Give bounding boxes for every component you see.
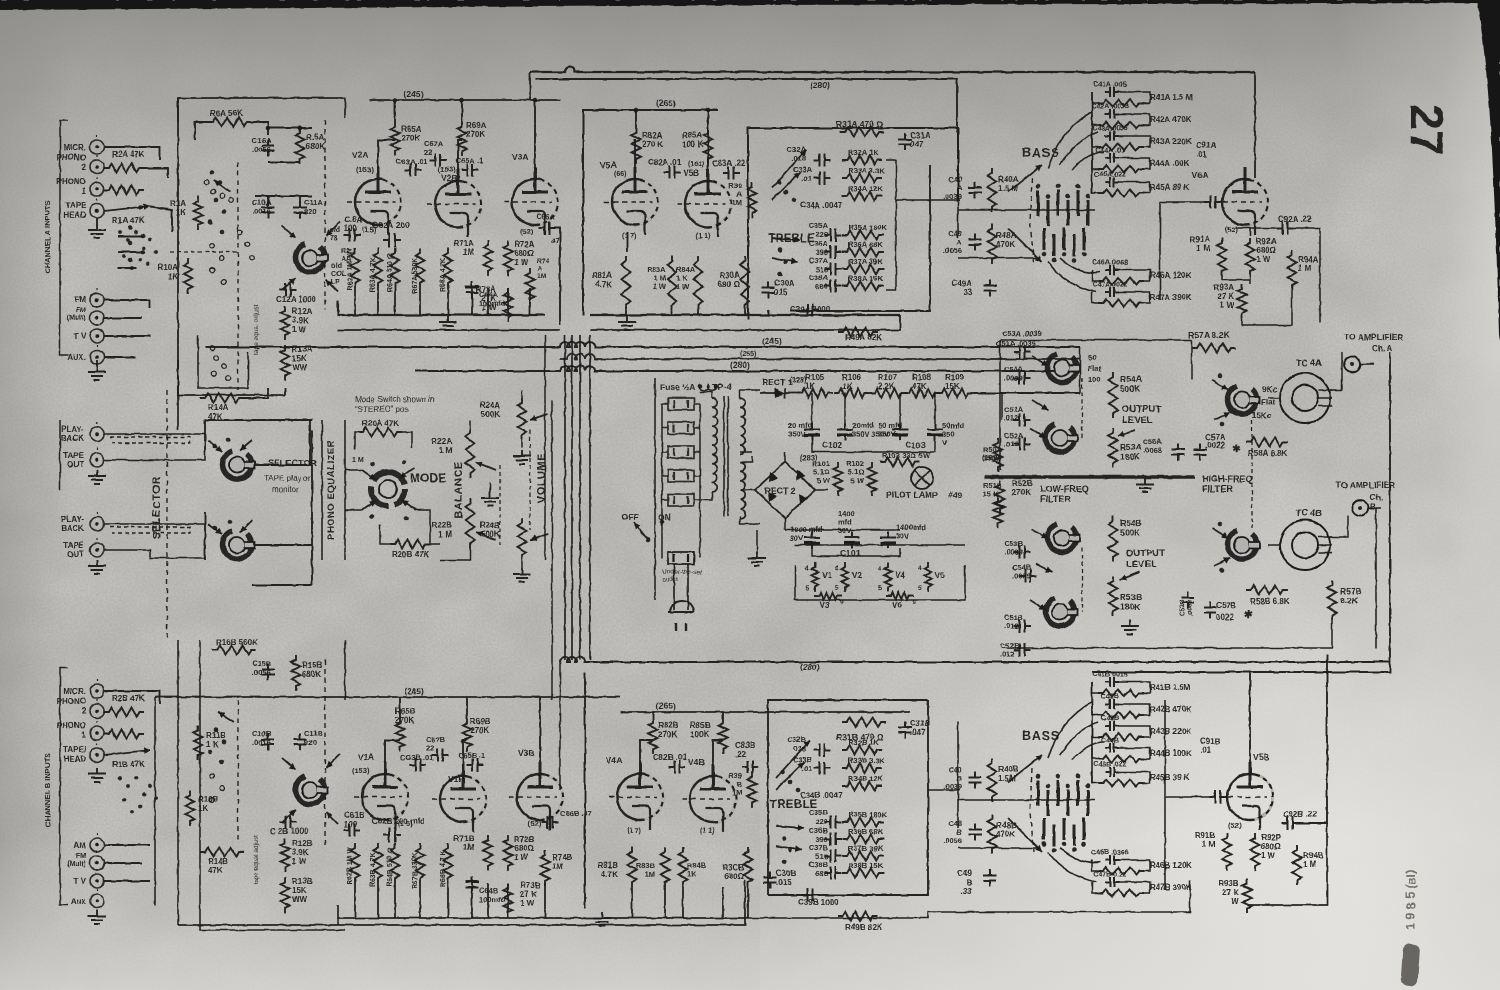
mid rail 280	[415, 366, 1080, 371]
svg-text:33: 33	[963, 288, 972, 297]
wire sel block A bottom	[284, 388, 286, 395]
wire xfmr leads	[700, 392, 712, 398]
node tape A	[139, 205, 144, 210]
bottom right smudge	[1400, 943, 1420, 986]
svg-text:4: 4	[835, 565, 839, 572]
svg-text:1 W: 1 W	[482, 303, 497, 312]
triode V5A	[612, 179, 658, 225]
resistor R107 2.2K	[870, 389, 906, 398]
output wiper B	[1120, 572, 1140, 580]
svg-text:A: A	[537, 266, 542, 273]
resistor R85A 100K	[704, 128, 713, 164]
svg-text:C83A .22: C83A .22	[712, 159, 746, 168]
diode rect1	[775, 388, 785, 398]
jack playback B	[90, 517, 104, 531]
hf arrows A	[1212, 380, 1228, 390]
heater resistor V5	[925, 562, 932, 592]
svg-text:4.7K: 4.7K	[601, 870, 618, 879]
resistor R2B	[104, 708, 144, 717]
svg-text:(245): (245)	[404, 89, 424, 99]
resistor R81A 4.7K	[622, 256, 631, 310]
svg-text:.0016: .0016	[252, 207, 271, 216]
resistor R74A 1M	[526, 268, 535, 304]
capacitor C32B	[814, 744, 831, 757]
switch fan treble A top	[772, 150, 806, 188]
svg-text:OFF: OFF	[622, 512, 639, 522]
svg-text:R33B 3.3K: R33B 3.3K	[848, 756, 886, 765]
svg-text:(52): (52)	[1225, 225, 1239, 234]
bass A feed wires	[930, 199, 960, 201]
svg-text:22: 22	[426, 744, 434, 753]
capacitor C66B	[542, 816, 559, 829]
svg-text:T V: T V	[74, 332, 87, 341]
svg-text:R32B 1K: R32B 1K	[848, 738, 879, 747]
svg-text:V2: V2	[852, 571, 862, 580]
dashed wafer line B2	[324, 660, 326, 845]
mid rail 255	[560, 354, 1080, 359]
capacitor C6A 100	[344, 229, 361, 242]
capacitor C30A 015	[762, 282, 775, 299]
svg-text:✱: ✱	[1244, 610, 1253, 621]
power cord	[673, 564, 675, 610]
heavy divider line	[985, 475, 1195, 479]
bottom bus B main	[178, 880, 745, 925]
svg-text:C42B: C42B	[1101, 694, 1119, 701]
wire v5a plate	[635, 140, 636, 168]
svg-text:V4B: V4B	[688, 757, 705, 767]
capacitor C49A 33	[984, 280, 997, 297]
resistor R68A 4.7K	[444, 248, 453, 288]
outer left vertical bottom	[177, 640, 179, 925]
svg-text:C34A .0047: C34A .0047	[800, 201, 843, 210]
svg-text:500K: 500K	[1120, 528, 1141, 538]
svg-text:15Kc: 15Kc	[1252, 411, 1272, 420]
heater resistor V6	[886, 593, 914, 600]
svg-text:R31A 470 Ω: R31A 470 Ω	[836, 119, 883, 129]
capacitor C54B	[1020, 570, 1037, 583]
svg-text:C83B: C83B	[735, 741, 756, 750]
svg-text:C34B .0047: C34B .0047	[800, 791, 843, 800]
wire c66a down	[553, 228, 560, 325]
resistor R68B 4.7K	[444, 843, 453, 883]
ground inputs A low	[88, 366, 106, 380]
capacitor C49B 33	[984, 870, 997, 887]
resistor R72B 680	[504, 835, 513, 871]
svg-text:R71A: R71A	[454, 239, 475, 248]
ground tube row B	[593, 912, 611, 926]
capacitor C51A .012	[1014, 414, 1031, 427]
bass switch arrow A dn	[1008, 228, 1042, 262]
svg-text:C38A: C38A	[809, 273, 829, 282]
top rail 245 B	[155, 696, 620, 698]
cathode bus stubs B	[354, 883, 356, 918]
transformer core	[724, 396, 728, 516]
svg-text:(153): (153)	[352, 766, 370, 775]
wire r20a loop	[355, 432, 358, 450]
lower contact box A	[198, 335, 248, 388]
bass curved links B	[1048, 702, 1104, 760]
resistor R65A 270K	[391, 122, 400, 156]
svg-text:R10B: R10B	[198, 795, 219, 804]
svg-text:.22: .22	[735, 750, 747, 759]
wire gnd low stub	[96, 360, 98, 366]
svg-text:(245): (245)	[762, 336, 782, 346]
resistor R108 47K	[904, 389, 940, 398]
svg-text:C66B .47: C66B .47	[560, 809, 592, 818]
heater resistor V2	[842, 562, 849, 592]
selector box A	[178, 98, 345, 122]
svg-text:LEVEL: LEVEL	[1126, 559, 1157, 570]
svg-text:270K: 270K	[658, 730, 677, 739]
svg-text:680 Ω: 680 Ω	[718, 280, 741, 289]
wire tv A	[104, 335, 150, 337]
svg-text:500K: 500K	[481, 410, 500, 419]
resistor R24A 500K	[518, 398, 527, 440]
contact open circles A1	[205, 180, 210, 185]
bottom rail B	[154, 697, 156, 905]
contact open circles A2	[210, 346, 215, 351]
dashed tape loop A	[110, 437, 190, 443]
capacitor C63A .01	[405, 164, 422, 177]
ground input B	[88, 768, 106, 782]
svg-text:27: 27	[1401, 104, 1453, 155]
svg-text:R10A: R10A	[158, 263, 179, 272]
svg-text:R69B: R69B	[470, 717, 491, 726]
resistor R58A 6.8K	[1246, 438, 1288, 447]
svg-text:(255): (255)	[740, 351, 756, 358]
svg-text:R.5A: R.5A	[306, 133, 324, 142]
vertical bus 1	[564, 335, 566, 660]
svg-text:AM: AM	[74, 841, 87, 850]
svg-text:(1 1): (1 1)	[700, 828, 714, 835]
svg-text:1 W: 1 W	[292, 857, 307, 866]
svg-text:220: 220	[815, 230, 828, 239]
svg-text:R108: R108	[912, 373, 932, 382]
svg-text:Flat: Flat	[1261, 398, 1276, 407]
dashed volume link	[529, 430, 531, 530]
svg-text:C32A: C32A	[787, 145, 807, 154]
dashed hf link	[1251, 420, 1253, 528]
svg-text:R103 33Ω 5W: R103 33Ω 5W	[882, 451, 931, 460]
svg-text:.0068: .0068	[1143, 446, 1162, 455]
wire r5a rail	[268, 127, 312, 129]
svg-text:47: 47	[551, 236, 559, 245]
bass switch arc A	[1030, 178, 1034, 262]
svg-text:Ch. A: Ch. A	[1372, 344, 1393, 353]
svg-text:MICR.: MICR.	[63, 143, 86, 152]
svg-text:Mode Switch shown in: Mode Switch shown in	[355, 395, 435, 404]
capacitor C46B .0366 / resistor R46B 120K low row B	[1105, 855, 1119, 865]
svg-text:R14A: R14A	[208, 403, 229, 412]
svg-text:1M: 1M	[732, 788, 742, 797]
svg-text:R36A 68K: R36A 68K	[848, 240, 883, 249]
wire balance wiper gnd	[489, 482, 491, 492]
interlock contacts column	[668, 398, 694, 410]
svg-text:C43A.0056: C43A.0056	[1092, 126, 1128, 133]
wire am B	[104, 844, 150, 846]
node rail a1	[393, 98, 398, 103]
svg-text:R15B: R15B	[302, 661, 323, 670]
svg-text:R43A 220K: R43A 220K	[1150, 137, 1192, 146]
svg-text:R45B 39 K: R45B 39 K	[1150, 773, 1190, 782]
triode V6A	[1222, 179, 1268, 225]
wire c91b in	[1165, 796, 1210, 798]
switch dots B	[214, 728, 219, 733]
svg-text:V1: V1	[822, 571, 832, 580]
jack AM B	[90, 838, 104, 852]
resistor R83A 1M	[668, 256, 677, 310]
svg-text:C82B .01: C82B .01	[653, 753, 687, 762]
svg-text:R85A: R85A	[682, 131, 703, 140]
svg-text:RECT 2: RECT 2	[764, 486, 796, 496]
svg-text:PHONO: PHONO	[57, 177, 86, 186]
svg-text:R53B: R53B	[1120, 592, 1142, 602]
resistor R50A 150K	[994, 438, 1003, 472]
resistor R36A 68K	[842, 248, 884, 257]
terminal to amplifier A	[1344, 356, 1360, 372]
svg-text:1K: 1K	[805, 382, 815, 391]
treble box A	[748, 128, 958, 320]
svg-text:OUTPUT: OUTPUT	[1122, 404, 1161, 415]
svg-text:4: 4	[918, 565, 922, 572]
dashed lf link B	[1081, 548, 1083, 612]
jack TV B	[90, 874, 104, 888]
capacitor C2B 1000	[280, 816, 297, 829]
capacitor C82B .01	[669, 761, 686, 774]
svg-text:R36B 68K: R36B 68K	[848, 827, 884, 836]
jack AUX A	[90, 350, 104, 364]
svg-text:R34B 12K: R34B 12K	[848, 774, 884, 783]
ground playback A	[88, 470, 106, 484]
svg-text:C65A .1: C65A .1	[456, 156, 483, 165]
svg-text:1 W: 1 W	[514, 258, 529, 267]
svg-text:R94B: R94B	[1303, 851, 1324, 860]
svg-text:TO AMPLIFIER: TO AMPLIFIER	[1336, 480, 1396, 490]
capacitor C35B	[825, 816, 842, 829]
heater resistor V3	[814, 593, 842, 600]
bass A lower rail	[958, 257, 1040, 259]
svg-text:.012: .012	[1004, 440, 1019, 449]
resistor R3A	[104, 186, 144, 195]
svg-text:R58B 6.8K: R58B 6.8K	[1250, 597, 1290, 606]
svg-text:V1B: V1B	[448, 774, 465, 784]
svg-text:Fuse ½A: Fuse ½A	[660, 382, 695, 392]
svg-text:1 M: 1 M	[1298, 264, 1312, 273]
svg-text:OUT: OUT	[67, 460, 84, 469]
svg-text:2: 2	[82, 163, 87, 172]
svg-text:PLAY-: PLAY-	[61, 425, 84, 434]
wire selector B out	[255, 544, 312, 546]
capacitor C35A	[825, 229, 842, 242]
node r5a top	[298, 126, 303, 131]
power switch lever	[634, 522, 648, 540]
capacitor C32A	[814, 154, 831, 167]
svg-text:5 W: 5 W	[817, 476, 831, 485]
resistor R69A 270K	[458, 122, 467, 156]
svg-text:PHONO: PHONO	[57, 697, 86, 706]
svg-text:R64A 510 Ω: R64A 510 Ω	[387, 253, 394, 292]
wire mode links	[345, 469, 362, 471]
svg-text:2.2K: 2.2K	[878, 382, 895, 391]
resistor R35B 180K	[842, 818, 884, 827]
jack FM A	[90, 293, 104, 307]
wire second top rail	[535, 79, 957, 132]
svg-text:V4A: V4A	[606, 755, 623, 765]
resistor R106 1K	[834, 389, 870, 398]
resistor R65B 270K	[396, 718, 405, 752]
bass A mid rail	[958, 209, 1095, 211]
wire c101 bus	[785, 529, 900, 531]
wire v2b plate rail	[458, 140, 462, 170]
svg-text:27 K: 27 K	[1217, 292, 1234, 301]
svg-text:2: 2	[82, 707, 87, 716]
resistor R91A 1M	[1218, 238, 1227, 276]
svg-text:1M: 1M	[645, 870, 655, 879]
wire v3a plate	[534, 100, 536, 168]
resistor R10A 1K	[184, 258, 193, 294]
svg-text:470K: 470K	[996, 830, 1015, 839]
svg-text:HIGH-FREQ: HIGH-FREQ	[1202, 474, 1253, 484]
capacitor C53B	[1014, 546, 1031, 559]
svg-text:(1 1): (1 1)	[696, 233, 710, 240]
B+ 280 rail top	[530, 67, 1255, 72]
svg-text:PLAY-: PLAY-	[61, 515, 84, 524]
selector arrows B	[208, 524, 222, 534]
svg-text:.015: .015	[776, 878, 792, 887]
resistor R34A 12K	[842, 192, 882, 201]
svg-text:C91A: C91A	[1196, 141, 1217, 150]
rectifier bridge RECT 2	[755, 462, 815, 518]
svg-text:R109: R109	[945, 373, 965, 382]
svg-text:R40B: R40B	[998, 765, 1019, 774]
svg-text:C35A: C35A	[809, 221, 829, 230]
svg-text:270K: 270K	[1012, 488, 1031, 497]
resistor R1A 1K	[194, 196, 203, 230]
resistor R84A 1K	[694, 256, 703, 310]
svg-text:R68B 4.7 K: R68B 4.7 K	[440, 850, 447, 887]
svg-text:T V: T V	[74, 877, 87, 886]
svg-text:TAPE play or: TAPE play or	[264, 474, 311, 483]
bass curved links A	[1048, 112, 1104, 170]
switch arrows wafer A	[282, 226, 296, 238]
svg-text:C46B .0366: C46B .0366	[1091, 850, 1128, 857]
svg-text:COL: COL	[331, 271, 347, 278]
capacitor C41A / resistor R41A ladder row	[1105, 87, 1119, 97]
power box outline	[654, 378, 656, 600]
svg-text:R24B: R24B	[480, 521, 501, 530]
svg-text:1 M: 1 M	[439, 530, 453, 539]
svg-text:3.9K: 3.9K	[292, 848, 309, 857]
jack TV A	[90, 329, 104, 343]
svg-text:outlet: outlet	[662, 577, 678, 584]
mode arrows	[362, 470, 376, 480]
svg-text:C15B: C15B	[252, 659, 272, 668]
jack tape out A	[90, 453, 104, 467]
svg-text:TAPE: TAPE	[63, 451, 84, 460]
wire 280 rail drop right	[1254, 72, 1256, 178]
svg-text:C46A.0068: C46A.0068	[1092, 260, 1128, 267]
wire hf A net	[1191, 340, 1193, 380]
svg-text:(163): (163)	[356, 165, 374, 174]
capacitor C65A .1	[462, 164, 479, 177]
svg-text:C62A 200: C62A 200	[372, 220, 410, 230]
wire input gnd stub	[96, 218, 98, 224]
highfreq knob A	[1228, 386, 1257, 414]
capacitor C33B	[814, 762, 831, 775]
svg-text:1 W: 1 W	[292, 325, 307, 334]
triode V4A	[617, 774, 663, 820]
svg-text:C39B 1000: C39B 1000	[798, 898, 839, 907]
svg-text:100: 100	[344, 224, 358, 233]
selector feed dots A	[128, 226, 133, 231]
capacitor C10A	[262, 202, 275, 219]
wire r24a	[521, 440, 523, 448]
svg-text:(1 7): (1 7)	[622, 233, 636, 240]
jack MICR A	[90, 140, 104, 154]
wire v5b top rail	[1250, 662, 1390, 672]
svg-text:C10B: C10B	[252, 729, 272, 738]
wire c10 c11 top	[267, 196, 269, 203]
wire v3b plate	[539, 697, 541, 763]
svg-text:Ch.: Ch.	[1370, 493, 1383, 502]
resistor R40A 1.5M	[988, 168, 997, 212]
wire v5a cathode	[626, 232, 628, 252]
svg-text:8.2K: 8.2K	[1340, 596, 1359, 606]
svg-text:V3: V3	[820, 601, 830, 610]
resistor R12A	[281, 306, 290, 340]
svg-text:(280): (280)	[730, 360, 750, 370]
wire c92a to right	[1293, 228, 1320, 322]
resistor R73B 27K	[504, 883, 513, 917]
svg-text:V5B: V5B	[1253, 752, 1270, 762]
svg-text:R40A: R40A	[998, 175, 1019, 184]
ground inputs B low	[88, 910, 106, 924]
svg-text:5 W: 5 W	[851, 476, 865, 485]
svg-text:FM: FM	[76, 307, 86, 314]
svg-text:1 M: 1 M	[1197, 244, 1211, 253]
svg-text:.0056: .0056	[943, 836, 962, 845]
resistor R46B 120K label wire	[1148, 861, 1155, 863]
svg-text:TAPE/: TAPE/	[63, 745, 87, 754]
svg-text:B: B	[1370, 502, 1376, 511]
svg-text:R20B 47K: R20B 47K	[392, 550, 430, 559]
resistor R53B 180K	[1109, 576, 1118, 616]
svg-text:.012: .012	[1000, 650, 1015, 659]
heater resistor V1	[812, 562, 819, 592]
wire sel feed A	[118, 235, 143, 237]
svg-text:R45A 89 K: R45A 89 K	[1150, 183, 1190, 192]
ladder A left bus	[1091, 92, 1093, 194]
svg-text:R65B: R65B	[395, 707, 416, 716]
svg-text:R63A 4.7K: R63A 4.7K	[370, 258, 377, 292]
resistor R82B 270K	[649, 718, 658, 754]
resistor R39A 1M	[748, 182, 757, 218]
channel B input bracket	[60, 668, 68, 905]
wire aux A	[104, 356, 136, 358]
svg-text:R13B: R13B	[292, 877, 313, 886]
svg-text:1K: 1K	[176, 208, 186, 217]
resistor R91B 1M	[1223, 833, 1232, 871]
resistor R32A 1K	[842, 156, 882, 165]
filter A box	[1000, 339, 1192, 341]
mode rotary switch	[371, 472, 405, 506]
svg-text:C44B: C44B	[1101, 738, 1119, 745]
svg-text:270K: 270K	[470, 726, 489, 735]
resistor R73A 27K	[504, 288, 513, 322]
top rail 245 A	[370, 99, 560, 101]
resistor R22A balance	[466, 428, 475, 478]
svg-text:V5B: V5B	[683, 168, 700, 178]
